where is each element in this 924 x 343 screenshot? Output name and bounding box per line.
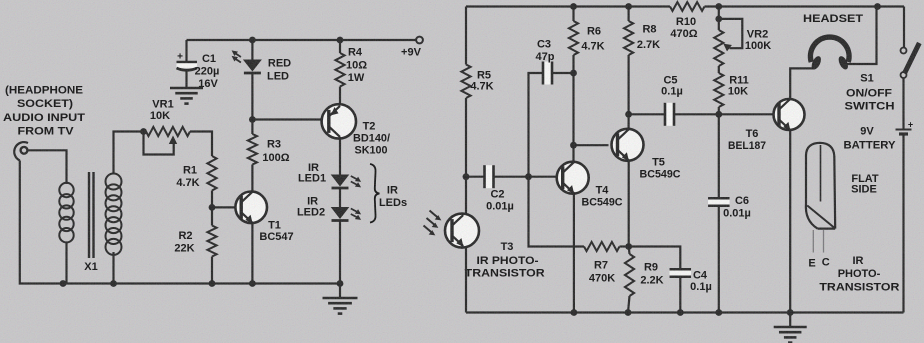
wire VR1 to R1 <box>190 132 212 157</box>
audio input jack J1 <box>14 142 28 160</box>
wire T3 collector <box>465 177 467 215</box>
transistor T2 <box>322 104 390 156</box>
wire T4 collector node to T5 base <box>574 144 609 146</box>
wire transformer secondary top to VR1 <box>114 132 147 175</box>
wire jack tip to transformer primary <box>28 150 67 184</box>
wire rail to switch <box>903 7 905 48</box>
node LED anode <box>249 37 256 44</box>
switch S1 <box>845 43 920 113</box>
node R6 top <box>570 3 577 10</box>
transistor T4 <box>557 162 623 209</box>
transistor T6 <box>728 99 805 152</box>
red LED <box>232 40 292 83</box>
capacitor C5 <box>629 75 719 126</box>
battery B1 9V <box>844 120 914 152</box>
node R8 top <box>625 3 632 10</box>
resistor R4 <box>335 40 367 105</box>
phototransistor T3 <box>445 214 545 280</box>
input text labels <box>3 85 85 138</box>
wire T3 emitter to rail <box>465 247 467 313</box>
wire T6 emitter to ground <box>787 130 794 316</box>
wire T1 emitter to rail <box>249 222 256 287</box>
capacitor C2 <box>466 165 529 212</box>
wire base node to T1 <box>212 206 241 208</box>
top supply rail right <box>466 5 904 7</box>
resistor R10 <box>670 2 705 40</box>
transistor T1 <box>235 192 293 244</box>
node T1 base junction <box>209 204 216 211</box>
bottom ground rail right <box>466 311 904 313</box>
wire T1 collector to R3 <box>251 165 253 193</box>
node C5 left <box>625 111 632 118</box>
wire C3 branch <box>529 73 544 177</box>
capacitor C4 <box>629 247 712 316</box>
capacitor C6 <box>708 114 751 316</box>
wire LED cathode to T2 base node <box>249 74 256 123</box>
node R10 right / VR2 top <box>715 3 722 10</box>
resistor R7 <box>529 177 629 285</box>
IR phototransistor package drawing <box>806 143 900 294</box>
wire switch to battery <box>902 78 904 129</box>
ground symbol left <box>323 284 358 314</box>
wire R1 to base node <box>211 191 213 208</box>
capacitor C3 <box>536 39 574 85</box>
resistor R1 <box>176 156 216 191</box>
node R4 top <box>337 37 344 44</box>
resistor R5 <box>461 65 493 99</box>
resistor R6 <box>569 7 605 74</box>
resistor R11 <box>714 66 749 114</box>
wire R6 to T4 collector <box>570 73 577 162</box>
wire T6 collector to headset <box>790 68 814 99</box>
potentiometer VR2 <box>714 7 771 67</box>
wire LED1 to LED2 <box>339 189 341 207</box>
wire battery to bottom rail <box>902 136 904 313</box>
+9V terminal <box>401 37 423 59</box>
brace IR LEDs <box>370 164 407 223</box>
resistor R8 <box>624 7 660 130</box>
capacitor C1 <box>177 40 220 90</box>
resistor R2 <box>174 207 216 283</box>
resistor R9 <box>625 247 664 316</box>
wire jack sleeve to ground rail <box>20 161 63 284</box>
wire LED2 to ground rail <box>337 221 344 287</box>
transistor T5 <box>612 129 681 181</box>
wire base node to T2 <box>252 118 330 120</box>
+9V supply rail <box>187 39 417 41</box>
wire T2 collector to IR LED1 <box>339 137 341 175</box>
wire T5 emitter down <box>625 161 632 250</box>
wire node to T6 base <box>719 113 779 115</box>
wire T4 emitter to rail <box>571 194 578 316</box>
node T4 base <box>525 173 532 180</box>
wire R5 to C2 node <box>463 98 470 180</box>
left circuit ground rail <box>60 280 340 287</box>
light arrows into T3 <box>424 211 442 236</box>
wire headset right to rail <box>846 3 881 64</box>
transformer X1 <box>59 172 121 284</box>
node T6 base <box>715 111 722 118</box>
node C3 right <box>570 70 577 77</box>
potentiometer VR1 <box>140 99 190 155</box>
resistor R3 <box>248 120 290 165</box>
headset <box>803 13 863 71</box>
IR LED2 <box>297 196 361 221</box>
wire C2 node to T4 base <box>529 176 556 178</box>
ground symbol right <box>774 313 807 343</box>
IR LED1 <box>298 162 361 188</box>
wire left branch R5 <box>465 7 467 65</box>
ground below C1 <box>170 88 203 104</box>
